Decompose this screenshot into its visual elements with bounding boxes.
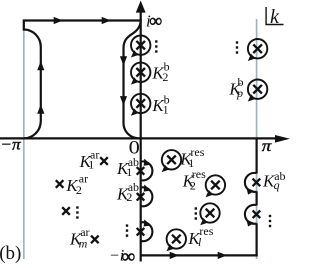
contour arrow down (upper) on hairpin line xyxy=(120,56,127,65)
contour detour hook around K1ab xyxy=(141,159,153,181)
svg-text:π: π xyxy=(262,136,273,154)
contour right line segment (middle) along +pi xyxy=(256,191,258,205)
contour arrow down (lower) on hairpin line xyxy=(120,96,127,105)
contour arrow right (left) on top line xyxy=(54,17,63,24)
ellipsis dots beside top bound pole xyxy=(155,40,157,52)
antiresonance pole K2ar xyxy=(56,180,64,188)
svg-text:res: res xyxy=(199,224,213,238)
contour arrow right (left) on bottom line xyxy=(170,252,179,259)
svg-text:2: 2 xyxy=(126,190,132,204)
bound-state pole (top, unlabeled) on imaginary axis xyxy=(131,36,151,58)
bound-state pole Kpb on +pi line xyxy=(248,80,268,102)
contour detour hook around K2ab xyxy=(141,185,153,207)
antiresonance pole (unlabeled) xyxy=(62,207,70,215)
svg-text:2: 2 xyxy=(162,70,168,84)
resonance pole K2res xyxy=(206,175,226,197)
svg-text:1: 1 xyxy=(88,157,94,171)
antibound pole Kqab on +pi line xyxy=(253,179,261,187)
contour arrow right (right) on bottom line xyxy=(218,252,227,259)
real axis xyxy=(0,137,276,139)
ellipsis dots beside unlabeled resonance pole xyxy=(195,207,197,219)
contour right line segment (lower) along +pi xyxy=(256,223,258,256)
ellipsis dots beside top +pi bound pole xyxy=(236,41,238,53)
branch cut line at -pi (gray) xyxy=(23,20,25,260)
svg-text:p: p xyxy=(236,86,243,100)
bound-state pole K1b on imaginary axis xyxy=(131,94,151,116)
contour detour hook around lower +pi antibound pole xyxy=(245,205,257,227)
imaginary axis xyxy=(140,11,142,262)
antibound pole (unlabeled) on +pi line xyxy=(253,211,261,219)
label pi xyxy=(262,136,273,154)
branch cut line at +pi (gray) xyxy=(256,19,258,259)
antibound pole (unlabeled) on imaginary axis xyxy=(137,228,145,236)
bound-state pole K2b on imaginary axis xyxy=(131,63,151,85)
antibound pole K1ab on imaginary axis xyxy=(137,167,145,175)
svg-text:2: 2 xyxy=(76,183,82,197)
resonance pole Klres xyxy=(167,229,187,251)
ellipsis dots beside antiresonance poles xyxy=(76,206,78,218)
contour: bottom line at -i inf xyxy=(141,254,258,256)
svg-text:∞: ∞ xyxy=(149,11,162,31)
contour arrow right (right) on top line xyxy=(102,17,111,24)
contour arrow up (upper) on left vertical xyxy=(37,61,44,70)
k plane corner symbol xyxy=(266,7,283,25)
svg-text:1: 1 xyxy=(163,103,169,117)
resonance pole (unlabeled, with dots) xyxy=(200,203,220,225)
resonance pole K1res xyxy=(162,150,182,172)
contour detour hook around Kqab xyxy=(245,173,257,195)
contour arrow up (lower) on left vertical xyxy=(37,104,44,113)
label -pi xyxy=(0,135,21,153)
integration contour: left loop + top line + hairpin around imaginary axis xyxy=(24,21,141,139)
bound-state pole (top, unlabeled) on +pi line xyxy=(248,39,268,61)
ellipsis dots beside lower antibound poles xyxy=(126,224,128,236)
label 0 xyxy=(129,137,140,158)
svg-text:∞: ∞ xyxy=(122,247,136,268)
svg-text:2: 2 xyxy=(190,179,196,193)
svg-text:1: 1 xyxy=(126,165,132,179)
svg-text:(b): (b) xyxy=(0,243,21,264)
svg-text:q: q xyxy=(274,178,280,192)
svg-text:m: m xyxy=(79,237,88,251)
contour detour hook around lowest antibound pole xyxy=(141,219,153,241)
antiresonance pole Kmar xyxy=(91,236,99,244)
contour right line segment (upper) along +pi xyxy=(256,138,258,173)
svg-text:k: k xyxy=(270,6,280,28)
ellipsis dots beside +pi antibound poles xyxy=(269,215,271,227)
svg-text:−π: −π xyxy=(0,135,21,153)
antiresonance pole K1ar xyxy=(100,157,108,165)
antibound pole K2ab on imaginary axis xyxy=(137,193,145,201)
